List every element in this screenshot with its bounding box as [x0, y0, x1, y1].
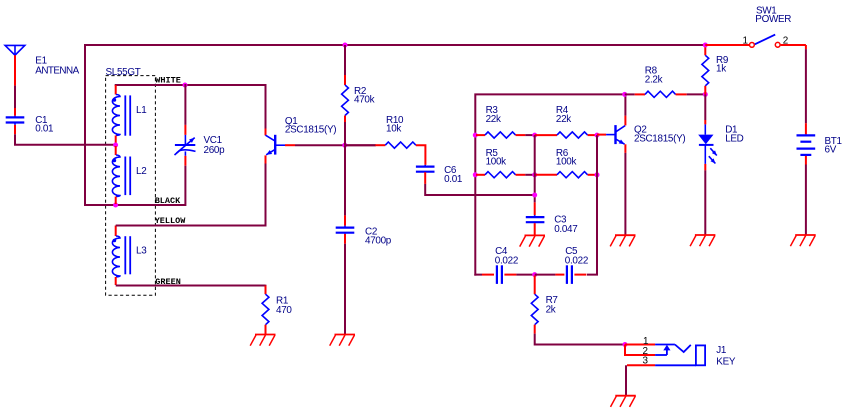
- svg-text:2: 2: [783, 36, 788, 47]
- ground below D1: [690, 235, 715, 246]
- ground below R1: [250, 335, 275, 346]
- net label YELLOW: [155, 216, 187, 226]
- label R3 22k: [486, 105, 501, 125]
- pin 1 label SW1: [743, 36, 749, 47]
- label J1 KEY: [716, 345, 736, 368]
- transistor Q2: [597, 116, 625, 153]
- node R5 R6 mid: [532, 172, 537, 177]
- label E1 ANTENNA: [35, 55, 79, 76]
- label C6 0.01: [444, 165, 463, 185]
- node base junction: [342, 143, 347, 148]
- ground below J1: [611, 396, 636, 407]
- label R5 100k: [486, 148, 507, 168]
- label R8 2.2k: [645, 66, 663, 86]
- label R2 470k: [354, 86, 375, 106]
- net label WHITE: [155, 76, 181, 86]
- svg-text:3: 3: [643, 356, 649, 367]
- svg-text:LED: LED: [725, 133, 743, 144]
- inductor L3: [112, 226, 130, 286]
- node R7 J1: [623, 342, 628, 347]
- resistor R5: [476, 172, 535, 178]
- svg-text:22k: 22k: [486, 114, 501, 125]
- svg-text:L2: L2: [136, 166, 146, 177]
- label C4 0.022: [495, 246, 518, 267]
- wire BLACK net: [84, 204, 185, 206]
- node rail SW1 junction: [703, 43, 708, 48]
- variable capacitor VC1: [175, 84, 196, 206]
- resistor R3: [476, 132, 535, 138]
- label L2: [136, 166, 146, 177]
- svg-text:2SC1815(Y): 2SC1815(Y): [634, 133, 685, 144]
- node R4 right: [595, 133, 600, 138]
- wire C4 row left: [475, 273, 482, 276]
- wire GREEN net: [116, 285, 266, 287]
- node C6 junction: [532, 193, 537, 198]
- node R6 right: [595, 172, 600, 177]
- resistor R4: [535, 132, 597, 138]
- svg-text:2k: 2k: [546, 305, 556, 316]
- svg-text:BLACK: BLACK: [155, 196, 181, 206]
- wire collector rail: [475, 94, 624, 136]
- wire Q2 emitter to ground: [624, 153, 626, 235]
- wire BT1 to ground: [805, 165, 807, 236]
- svg-text:100k: 100k: [556, 157, 577, 168]
- svg-text:100k: 100k: [486, 157, 507, 168]
- resistor R6: [535, 172, 597, 178]
- label C2 4700p: [365, 227, 392, 247]
- wire YELLOW net: [116, 164, 266, 226]
- capacitor C1: [6, 108, 25, 134]
- svg-text:L1: L1: [136, 105, 147, 116]
- resistor R8: [625, 91, 705, 97]
- ground below BT1: [790, 235, 815, 246]
- wire Q2 collector: [624, 94, 626, 115]
- svg-text:0.022: 0.022: [565, 255, 588, 266]
- svg-text:POWER: POWER: [755, 14, 791, 25]
- jack J1 pin2 wire: [625, 345, 655, 356]
- ground below C2: [330, 335, 355, 346]
- label R4 22k: [556, 105, 571, 125]
- wire top rail: [84, 44, 705, 205]
- label L1: [136, 105, 147, 116]
- wire WHITE net: [116, 85, 266, 129]
- svg-text:YELLOW: YELLOW: [155, 216, 187, 226]
- svg-text:GREEN: GREEN: [155, 277, 181, 287]
- capacitor C5: [535, 265, 587, 284]
- wire left vertical: [474, 134, 476, 276]
- svg-text:WHITE: WHITE: [155, 76, 181, 86]
- capacitor C4: [482, 265, 535, 284]
- svg-text:10k: 10k: [386, 124, 401, 135]
- net label GREEN: [155, 277, 181, 287]
- svg-text:0.047: 0.047: [554, 224, 577, 235]
- resistor R9: [702, 45, 709, 94]
- svg-text:2SC1815(Y): 2SC1815(Y): [285, 124, 336, 135]
- battery BT1: [797, 123, 816, 164]
- ground below Q2: [610, 235, 635, 246]
- transformer T1 dashed boundary box: [106, 76, 156, 296]
- label C3 0.047: [554, 215, 577, 235]
- label SW1 POWER: [755, 5, 791, 25]
- node Q2 collector junction: [622, 92, 627, 97]
- svg-text:470: 470: [276, 305, 292, 316]
- capacitor C2: [336, 145, 355, 335]
- wire J1 pin3 to ground: [625, 365, 627, 395]
- label D1 LED: [725, 124, 743, 144]
- svg-text:ANTENNA: ANTENNA: [35, 66, 79, 77]
- label Q2 2SC1815(Y): [634, 124, 685, 144]
- svg-text:0.022: 0.022: [495, 255, 518, 266]
- wire C1 to center tap node: [15, 134, 115, 145]
- wire antenna to C1: [14, 86, 16, 108]
- wire Q1 base node: [295, 144, 376, 146]
- resistor R10: [345, 142, 425, 165]
- node top rail R2 junction: [343, 43, 348, 48]
- label R10 10k: [386, 115, 404, 134]
- label L3: [136, 245, 147, 256]
- capacitor C6: [416, 165, 534, 195]
- label VC1 260p: [204, 135, 226, 156]
- label Q1 2SC1815(Y): [285, 116, 336, 135]
- pin 2 label J1: [643, 346, 648, 357]
- node C4 C5 R7: [532, 272, 537, 277]
- svg-text:1k: 1k: [716, 64, 726, 75]
- node R5 left: [473, 172, 478, 177]
- jack J1 symbol: [655, 345, 705, 366]
- svg-text:6V: 6V: [825, 145, 837, 156]
- net label BLACK: [155, 196, 181, 206]
- LED D1: [698, 94, 717, 235]
- label C1 0.01: [35, 115, 54, 134]
- wire middle vertical: [534, 135, 536, 202]
- resistor R1: [262, 285, 269, 335]
- svg-text:2.2k: 2.2k: [645, 75, 663, 86]
- node R8 R9 D1: [703, 92, 708, 97]
- switch SW1: [705, 35, 806, 50]
- label BT1 6V: [825, 136, 843, 156]
- node WHITE junction: [183, 83, 188, 88]
- ground below C3: [520, 235, 545, 246]
- resistor R2: [342, 45, 349, 145]
- svg-text:0.01: 0.01: [444, 174, 463, 185]
- svg-text:22k: 22k: [556, 114, 571, 125]
- svg-text:0.01: 0.01: [35, 124, 54, 135]
- jack J1 pin3 wire: [627, 364, 655, 366]
- pin 3 label J1: [643, 356, 649, 367]
- wire SW1 to BT1: [805, 49, 807, 123]
- inductor L2: [112, 146, 130, 204]
- node BLACK junction: [113, 203, 118, 208]
- svg-text:260p: 260p: [204, 145, 226, 156]
- jack J1 pin1 wire: [625, 344, 655, 346]
- svg-text:470k: 470k: [354, 95, 375, 106]
- wire right vertical: [587, 135, 597, 275]
- node R3 R4 mid: [532, 133, 537, 138]
- label R9 1k: [716, 55, 729, 75]
- node center tap: [113, 143, 118, 148]
- label C5 0.022: [565, 246, 588, 267]
- pin 2 label SW1: [783, 36, 788, 47]
- resistor R7: [531, 276, 625, 345]
- svg-text:1: 1: [743, 36, 749, 47]
- svg-text:J1: J1: [716, 345, 727, 356]
- capacitor C3: [526, 202, 545, 234]
- label R7 2k: [546, 295, 558, 315]
- svg-text:SL55GT: SL55GT: [106, 67, 141, 78]
- label R6 100k: [556, 148, 577, 168]
- transistor Q1: [266, 129, 296, 164]
- antenna E1: [5, 45, 25, 85]
- svg-text:L3: L3: [136, 245, 147, 256]
- node R3 left: [473, 133, 478, 138]
- label SL55GT: [106, 67, 141, 78]
- inductor L1: [112, 85, 130, 144]
- svg-text:KEY: KEY: [716, 356, 736, 367]
- pin 1 label J1: [643, 336, 649, 347]
- svg-text:4700p: 4700p: [365, 235, 392, 246]
- label R1 470: [276, 296, 292, 316]
